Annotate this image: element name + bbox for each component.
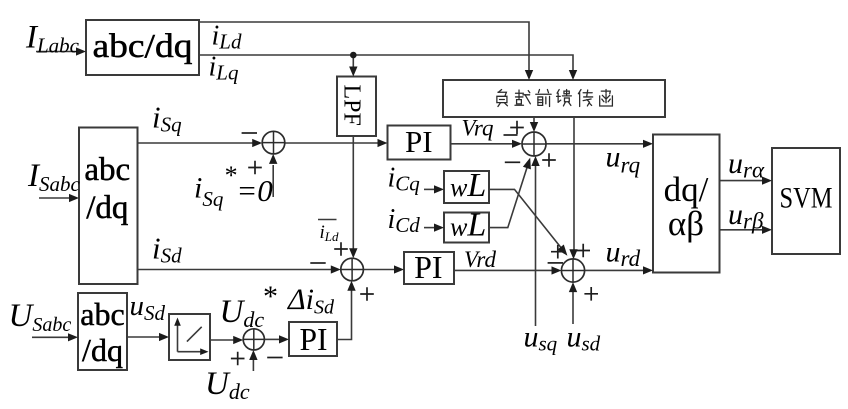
- svg-text:wL: wL: [450, 167, 486, 204]
- svg-text:abc/dq: abc/dq: [93, 28, 193, 65]
- svg-text:PI: PI: [405, 124, 433, 159]
- svg-text:/dq: /dq: [82, 332, 123, 368]
- svg-text:Vrq: Vrq: [462, 116, 494, 141]
- svg-text:PI: PI: [414, 249, 442, 285]
- svg-text:PI: PI: [299, 322, 327, 357]
- svg-text:LPF: LPF: [339, 85, 365, 126]
- svg-text:*: *: [263, 280, 278, 313]
- svg-text:αβ: αβ: [668, 204, 704, 243]
- svg-text:Vrd: Vrd: [464, 247, 496, 272]
- svg-text:abc: abc: [80, 296, 124, 332]
- svg-text:abc: abc: [84, 152, 130, 188]
- svg-text:wL: wL: [450, 207, 486, 244]
- svg-text:/dq: /dq: [86, 190, 128, 226]
- svg-text:SVM: SVM: [780, 182, 833, 215]
